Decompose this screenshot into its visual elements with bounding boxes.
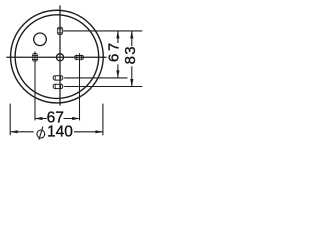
right slot <box>75 56 83 60</box>
arrow down dim83 <box>130 79 133 87</box>
phi symbol <box>37 127 45 140</box>
dim line phi140 <box>10 131 33 133</box>
dim line 83 (vertical right) <box>131 31 133 46</box>
arrow right phi140 <box>95 130 103 133</box>
phi140 extension lines <box>9 104 11 136</box>
extension line C (bottom slot2, right) <box>64 86 142 88</box>
upper-left hole <box>34 33 47 46</box>
outer circle (plate φ140) <box>11 10 104 103</box>
dim line 67 bottom <box>35 118 47 120</box>
svg-text:3: 3 <box>122 46 139 54</box>
dim line 67 (vertical right) <box>117 31 119 43</box>
center mark circle <box>56 54 63 61</box>
svg-text:6: 6 <box>105 54 122 62</box>
bottom slot 2 <box>53 84 63 88</box>
arrow up dim67 <box>116 31 119 39</box>
extension line A (top slot, right) <box>63 30 143 32</box>
arrow left phi140 <box>10 130 18 133</box>
arrow right dim67 bottom <box>72 117 80 120</box>
left slot centerline + extension down to 67 dim <box>34 51 36 120</box>
inner circle <box>15 15 99 99</box>
svg-text:7: 7 <box>105 43 122 51</box>
svg-text:8: 8 <box>122 56 139 64</box>
left slot <box>33 53 37 61</box>
vertical centerline <box>59 6 61 106</box>
extension line B (bottom slot1, right) <box>64 77 127 79</box>
arrow up dim83 <box>130 31 133 39</box>
right slot centerline + extension down to 67 dim <box>79 53 81 120</box>
arrow left dim67 bottom <box>35 117 43 120</box>
bottom slot 1 <box>53 76 63 80</box>
horizontal centerline <box>6 56 106 58</box>
svg-text:140: 140 <box>47 124 73 141</box>
top slot <box>58 27 63 34</box>
arrow down dim67 <box>116 70 119 78</box>
